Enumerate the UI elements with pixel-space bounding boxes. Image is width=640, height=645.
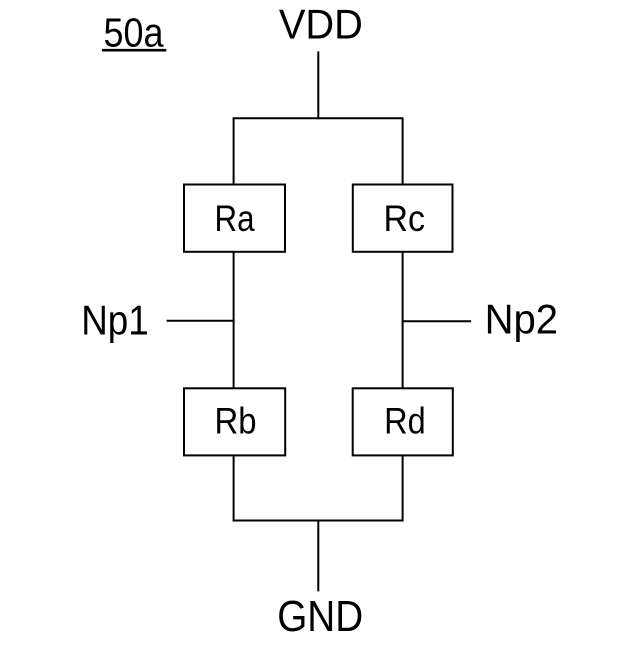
wire right branch middle xyxy=(402,252,404,388)
wire bottom bus xyxy=(233,520,404,522)
node VDD xyxy=(279,1,363,48)
resistor Rb xyxy=(184,388,285,455)
svg-text:50a: 50a xyxy=(104,9,164,55)
resistor Rc xyxy=(353,185,453,252)
svg-text:VDD: VDD xyxy=(279,1,363,48)
svg-text:Rc: Rc xyxy=(383,198,425,239)
resistor Ra xyxy=(184,185,285,252)
wire right branch lower xyxy=(402,455,404,520)
svg-text:Np2: Np2 xyxy=(485,295,558,342)
svg-text:Rd: Rd xyxy=(384,400,426,441)
node Np1 xyxy=(81,296,149,343)
wire left branch upper xyxy=(233,118,235,185)
label 50a xyxy=(102,9,166,55)
wire left branch middle xyxy=(233,252,235,388)
resistor Rd xyxy=(353,388,453,455)
wire VDD vertical xyxy=(317,51,319,119)
svg-text:Rb: Rb xyxy=(215,400,257,441)
svg-text:GND: GND xyxy=(277,592,363,640)
svg-text:Np1: Np1 xyxy=(81,296,149,343)
node Np2 xyxy=(485,295,558,342)
wire GND vertical xyxy=(317,521,319,592)
wire Np2 stub xyxy=(402,320,472,322)
svg-text:Ra: Ra xyxy=(215,198,255,239)
wire Np1 stub xyxy=(167,320,235,322)
node GND xyxy=(277,592,363,641)
wire left branch lower xyxy=(233,455,235,520)
wire right branch upper xyxy=(402,118,404,185)
wire top bus xyxy=(233,117,404,119)
